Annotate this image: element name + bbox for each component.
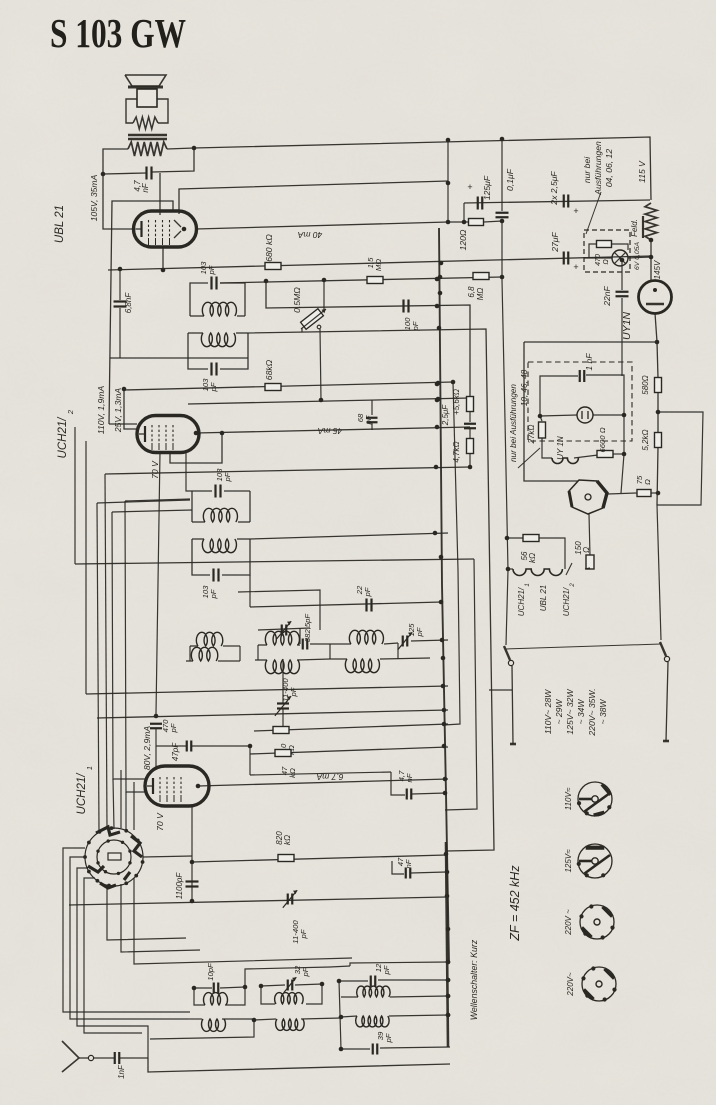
svg-text:nur bei: nur bei <box>582 156 592 183</box>
wire elco junction <box>469 429 471 438</box>
wire line y689 <box>86 686 448 694</box>
voice coil resistor zigzag <box>133 117 158 129</box>
svg-text:45 mA: 45 mA <box>317 426 342 436</box>
group1 coil a <box>194 988 205 1005</box>
wire node A down to 4.7nF <box>152 148 194 172</box>
trimmer 125pF osc <box>402 636 404 647</box>
svg-text:pF: pF <box>207 264 216 275</box>
svg-text:580Ω: 580Ω <box>641 375 650 394</box>
svg-text:110V, 1,9mA: 110V, 1,9mA <box>96 386 106 435</box>
resistor 10k <box>273 727 289 734</box>
svg-text:pF: pF <box>364 414 373 425</box>
svg-text:1: 1 <box>85 766 94 770</box>
resistor 580 Ohm <box>655 378 662 393</box>
socket 125V <box>578 844 612 878</box>
svg-text:220V~ 35W.: 220V~ 35W. <box>587 688 597 736</box>
svg-text:Ω: Ω <box>643 479 652 485</box>
IFT2 primary coil <box>192 521 205 523</box>
wire to 120 ohm <box>448 221 468 223</box>
socket 220V a <box>580 905 614 939</box>
svg-text:UY 1N: UY 1N <box>556 436 565 460</box>
wire primary left to UBL21 anode <box>103 149 133 229</box>
svg-text:UY1N: UY1N <box>621 312 633 340</box>
wire line 10k <box>254 724 448 731</box>
svg-text:125V≈: 125V≈ <box>564 849 573 873</box>
tube UCH21/2 <box>137 416 199 453</box>
indicator lamp circle <box>577 407 593 423</box>
solid box top <box>524 341 657 343</box>
UY heater bumps <box>552 458 578 464</box>
osc coil row1 a <box>190 645 198 647</box>
antenna <box>62 1041 79 1072</box>
socket 220V b <box>582 967 616 1001</box>
wire 470pF down <box>155 729 157 768</box>
svg-text:115 V: 115 V <box>637 160 647 183</box>
variable capacitor osc <box>277 702 289 704</box>
wire 125uF left down <box>463 203 465 222</box>
tube UBL21 <box>134 211 197 247</box>
svg-text:2x 2,5μF: 2x 2,5μF <box>549 171 559 206</box>
dashed box eye <box>528 362 632 441</box>
wire bus 580 <box>657 342 658 378</box>
resistor 6600 Ohm <box>597 451 613 458</box>
junction UBL21 diode <box>182 227 187 232</box>
capacitor 382.5pF <box>302 639 304 650</box>
group3 12pF wire <box>339 980 368 982</box>
pot left end to line F <box>301 328 303 332</box>
capacitor 68pF <box>371 400 373 415</box>
heater chain wire <box>508 568 513 570</box>
wire line 68k <box>124 382 453 390</box>
socket 110V <box>578 782 612 816</box>
IFT1 primary coil <box>190 315 204 317</box>
IFT2 secondary box <box>192 539 210 575</box>
svg-text:+: + <box>573 206 578 216</box>
resistor 680k <box>265 263 281 270</box>
loudspeaker LS <box>125 75 166 86</box>
switch lever left <box>508 660 513 665</box>
svg-text:Ausführungen: Ausführungen <box>593 141 603 196</box>
wire lamp row <box>584 257 612 259</box>
svg-text:UCH21/: UCH21/ <box>517 587 526 616</box>
wire down to switch <box>657 505 661 640</box>
svg-text:70 V: 70 V <box>150 460 160 479</box>
resistor 5.2k <box>655 433 662 448</box>
svg-text:1100pF: 1100pF <box>175 872 184 900</box>
svg-text:25V, 1,3mA: 25V, 1,3mA <box>113 388 123 434</box>
bus junction dots <box>439 261 444 266</box>
switch left box wires <box>63 848 190 1012</box>
svg-text:04, 06, 12: 04, 06, 12 <box>604 149 614 187</box>
wire 2x2.5uF <box>563 195 565 208</box>
wire trimmer line y901 <box>69 897 446 905</box>
wire 47pF junction down <box>248 744 253 749</box>
wire line I from IFT2 <box>250 533 448 539</box>
svg-text:kΩ: kΩ <box>283 835 292 845</box>
svg-text:UCH21/: UCH21/ <box>76 772 88 815</box>
svg-text:0,1μF: 0,1μF <box>505 168 515 191</box>
capacitor 4.7nF tone <box>145 167 147 180</box>
svg-text:6,8: 6,8 <box>467 286 476 298</box>
svg-text:Wellenschalter: Kurz: Wellenschalter: Kurz <box>469 939 479 1020</box>
svg-text:~ 29W: ~ 29W <box>554 699 564 725</box>
svg-text:40 mA: 40 mA <box>297 230 322 240</box>
svg-text:pF: pF <box>384 1032 393 1043</box>
diode section of UBL21 <box>174 220 181 227</box>
resistor 150 Ohm <box>586 555 594 569</box>
group1 wire up <box>245 967 330 987</box>
resistor 56k <box>523 535 539 542</box>
svg-text:47pF: 47pF <box>171 742 180 761</box>
resistor 5.6k <box>467 397 474 412</box>
svg-text:680 kΩ: 680 kΩ <box>264 234 274 262</box>
capacitor 22nF <box>616 291 629 293</box>
wire line B corner <box>179 181 448 214</box>
svg-text:220V ~: 220V ~ <box>564 909 573 936</box>
antenna wire to coils <box>120 1057 148 1059</box>
capacitor 10pF <box>213 983 215 994</box>
capacitor 47pF <box>156 745 186 747</box>
osc coil row2 b <box>255 659 267 661</box>
wire grid cap to tube <box>159 173 161 215</box>
osc trimmer top <box>281 625 283 636</box>
svg-text:UBL 21: UBL 21 <box>539 585 548 612</box>
capacitor 103pF ift1 bottom <box>210 363 212 376</box>
dial lamp dashed box <box>584 230 630 272</box>
junction cap470 tap <box>154 714 159 719</box>
trimmer 32pF <box>287 980 289 991</box>
svg-text:470: 470 <box>595 254 602 266</box>
resistor 4.7k <box>467 439 474 454</box>
wire UCH21/1 lead2 <box>125 501 146 792</box>
svg-text:+: + <box>573 262 578 272</box>
svg-text:UBL 21: UBL 21 <box>54 205 66 243</box>
wire line F from IFT1 secondary <box>248 329 494 851</box>
group2 coil b <box>254 1019 276 1020</box>
capacitor 12pF <box>370 976 372 987</box>
svg-text:UCH21/: UCH21/ <box>57 416 69 459</box>
svg-text:6600 Ω: 6600 Ω <box>598 427 607 452</box>
indicator lamp row <box>540 415 577 416</box>
osc coil row2 a <box>186 660 193 662</box>
svg-text:pF: pF <box>169 722 178 733</box>
heater chain bumps <box>513 569 562 576</box>
screen box under UCH21/2 <box>170 433 222 463</box>
svg-text:382,5pF: 382,5pF <box>303 613 312 643</box>
svg-text:pF: pF <box>209 381 218 392</box>
group2 box <box>261 986 275 1004</box>
svg-text:Ω: Ω <box>582 547 591 553</box>
svg-text:nur bei Ausführungen: nur bei Ausführungen <box>509 384 518 462</box>
capacitor 100pF <box>402 300 404 313</box>
capacitor 470pF <box>150 723 162 725</box>
switch wire left down <box>512 666 513 744</box>
osc coil group3 top <box>350 962 448 966</box>
resistor 6.8M <box>473 273 489 280</box>
svg-text:pF: pF <box>299 928 308 939</box>
resistor 27k <box>540 416 542 421</box>
svg-text:+: + <box>467 182 472 192</box>
group1 coil b <box>188 1018 202 1020</box>
wire k down to osc coil section <box>156 452 160 714</box>
trimmer 11-400pF <box>287 894 289 905</box>
IFT2 secondary coil <box>192 538 204 540</box>
resistor 47k osc <box>275 750 291 757</box>
elco 125uF <box>477 197 479 210</box>
wire rectifier down <box>655 313 657 342</box>
svg-text:kΩ: kΩ <box>288 768 297 778</box>
group3 coil a <box>341 996 358 998</box>
magic eye cathode down <box>589 514 590 556</box>
svg-text:68kΩ: 68kΩ <box>264 359 274 380</box>
output transformer primary winding <box>128 142 167 156</box>
bottom long wire <box>148 1058 450 1072</box>
v3 switch tap <box>489 689 512 691</box>
svg-text:5,2kΩ: 5,2kΩ <box>641 429 650 450</box>
resistor 120 ohm <box>469 219 484 226</box>
svg-text:145V: 145V <box>653 260 662 279</box>
svg-text:22nF: 22nF <box>602 285 612 306</box>
potentiometer 0.5M <box>323 280 325 311</box>
capacitor 1100pF <box>186 880 199 882</box>
resistor 68k <box>265 384 281 391</box>
ant coil group2 top <box>261 985 285 986</box>
svg-text:pF: pF <box>223 471 232 482</box>
svg-text:6V 0,05A: 6V 0,05A <box>634 242 641 270</box>
wire line D <box>220 277 502 283</box>
wire primary right to node A <box>167 148 194 149</box>
resistor 1.5M <box>367 277 383 284</box>
wire field to rectifier <box>650 240 652 281</box>
svg-text:nF: nF <box>405 772 414 782</box>
svg-text:2,5μF: 2,5μF <box>441 404 450 427</box>
capacitor 47nF <box>405 868 407 879</box>
group3 coil b <box>341 1016 357 1017</box>
wire UCH21/1 grid leads <box>112 512 146 779</box>
IFT1 secondary coil <box>188 332 203 334</box>
svg-text:110V≈: 110V≈ <box>564 787 573 810</box>
wire line 22pF <box>249 575 251 607</box>
wire UBL21 plate line P <box>196 222 448 229</box>
grid box UBL21 <box>109 201 173 424</box>
svg-text:nF: nF <box>404 858 413 868</box>
svg-text:pF: pF <box>301 966 310 977</box>
capacitor 1nF <box>579 370 581 382</box>
capacitor 27uF <box>563 252 565 265</box>
osc coil boxes <box>189 646 191 661</box>
wire 820k line <box>192 855 446 862</box>
capacitor 22pF <box>365 599 367 612</box>
rectifier tube UY1N <box>639 281 672 314</box>
capacitor 103pF ift1 <box>210 277 212 290</box>
svg-text:kΩ: kΩ <box>528 553 537 563</box>
wire 22nF branch <box>621 260 623 290</box>
wire line A to 115V corner <box>194 137 651 200</box>
4.7nF loop <box>391 780 405 795</box>
svg-text:10pF: 10pF <box>206 962 215 981</box>
svg-text:0,5MΩ: 0,5MΩ <box>292 287 302 313</box>
junction <box>101 172 106 177</box>
long vertical 0.1uF to heater chain <box>502 219 508 645</box>
svg-text:pF: pF <box>382 964 391 975</box>
leader line eye box <box>518 448 540 468</box>
group1 coil b drop <box>150 1020 254 1039</box>
wire 6.7mA line <box>198 779 448 786</box>
dial lamp <box>612 250 628 266</box>
group3 left verticals <box>339 981 341 1049</box>
osc coil row1 c <box>310 643 351 645</box>
svg-text:Ω: Ω <box>603 259 610 265</box>
svg-text:80V, 2,9mA: 80V, 2,9mA <box>142 726 152 771</box>
svg-text:1nF: 1nF <box>117 1064 126 1079</box>
svg-text:27μF: 27μF <box>550 231 560 252</box>
staircase x97 vertical <box>97 503 99 831</box>
wire osc plate line <box>250 772 391 775</box>
heater arrow <box>566 563 572 575</box>
wire line H 45mA <box>196 427 470 433</box>
vertical x448 from line A <box>447 140 449 222</box>
wire 4.7k bottom <box>469 454 471 467</box>
wire line 47k <box>250 747 448 754</box>
switch contact dots <box>141 860 145 864</box>
switch lower wires <box>107 886 186 940</box>
wire line C <box>108 256 651 270</box>
wire heater to 6600 <box>574 455 598 458</box>
capacitor 39pF <box>372 1044 374 1055</box>
svg-text:MΩ: MΩ <box>374 259 383 271</box>
main bus vertical <box>439 228 449 963</box>
wire 56k row <box>507 537 524 539</box>
svg-text:pF: pF <box>289 686 298 697</box>
staircase x86 vertical <box>85 441 87 694</box>
capacitor 0.1uF <box>496 212 509 214</box>
IF transformer 1 box top <box>190 283 208 316</box>
svg-text:2: 2 <box>570 583 576 588</box>
svg-text:~ 34W: ~ 34W <box>576 699 586 725</box>
long vertical v2 from y562 line <box>445 559 477 810</box>
long vertical x453 from 68k line <box>444 382 460 725</box>
resistor 470 Ohm lamp <box>589 244 596 258</box>
elco 2.5uF <box>469 412 471 422</box>
inner box 1nF <box>540 376 578 416</box>
speaker hum-bucking coil box <box>126 99 137 123</box>
svg-text:10, 46, 48: 10, 46, 48 <box>520 369 529 406</box>
capacitor 6.8nF <box>119 269 121 300</box>
svg-text:27kΩ: 27kΩ <box>527 425 536 445</box>
svg-text:70 V: 70 V <box>155 812 165 831</box>
wire line y590 stub <box>238 590 320 630</box>
resistor 820k <box>278 855 294 862</box>
svg-text:125μF: 125μF <box>482 175 492 200</box>
wire g3 down to IFT2 <box>186 452 192 491</box>
capacitor 4.7nF osc <box>406 789 408 800</box>
staircase corner x105 <box>105 474 107 829</box>
svg-text:220V~: 220V~ <box>566 972 575 997</box>
pot wiper wire <box>317 325 321 329</box>
svg-text:Feld.: Feld. <box>630 219 639 237</box>
svg-text:2: 2 <box>66 409 75 415</box>
capacitor 1nF antenna <box>94 1057 114 1059</box>
ant coil group1 top <box>194 987 212 989</box>
svg-text:MΩ: MΩ <box>476 288 485 301</box>
capacitor 103pF ift2 top <box>214 485 216 498</box>
IFT2 box top <box>191 491 193 522</box>
svg-text:6,8nF: 6,8nF <box>124 292 133 314</box>
wire tube cathode down <box>162 246 164 270</box>
svg-text:~ 38W: ~ 38W <box>598 699 608 725</box>
wire 125uF line <box>464 200 650 203</box>
IFT1 secondary box <box>188 333 208 369</box>
svg-text:120Ω: 120Ω <box>458 229 468 250</box>
wire line y562 long <box>75 559 474 564</box>
switch lever right <box>664 656 669 661</box>
leader line lamp box <box>586 192 601 234</box>
svg-text:pF: pF <box>209 588 218 599</box>
field zigzag <box>645 203 657 240</box>
capacitor 103pF ift2 bottom <box>212 569 214 582</box>
wire 4.7nF to anode wire <box>103 173 146 174</box>
wire line y471 <box>105 467 470 474</box>
junction node A <box>192 146 197 151</box>
switch link rod <box>506 644 661 649</box>
osc coil row2 c <box>330 658 347 660</box>
right loop <box>657 412 703 505</box>
resistor 75 Ohm <box>608 493 637 494</box>
group3 39pF wire <box>341 1048 370 1050</box>
wire 1100pF vertical <box>191 806 193 901</box>
vertical 0.1uF line <box>501 139 503 211</box>
tube UCH21/1 <box>145 766 209 806</box>
group2 coil a <box>275 993 304 1004</box>
wave switch bus thick <box>446 842 448 1047</box>
solid box left <box>524 342 578 481</box>
switch contact bars <box>96 827 120 835</box>
capacitor 47nF loop <box>392 861 404 874</box>
svg-text:1: 1 <box>525 583 531 586</box>
wire line G <box>188 398 470 404</box>
switch right wire to 1100pF <box>143 856 192 857</box>
svg-text:nF: nF <box>141 182 150 192</box>
group2 top wire right <box>330 966 350 967</box>
svg-text:UCH21/: UCH21/ <box>562 587 571 616</box>
switch feed wires top <box>120 770 122 828</box>
magic eye tube <box>569 480 607 514</box>
switch wire right down <box>666 662 668 741</box>
junction line D <box>264 279 269 284</box>
staircase x75 vertical <box>74 427 76 564</box>
svg-text:S 103 GW: S 103 GW <box>50 10 186 56</box>
svg-text:pF: pF <box>363 586 372 597</box>
svg-text:125V~ 32W: 125V~ 32W <box>565 689 575 735</box>
wire line E grid2 <box>266 281 470 396</box>
wire line y714 <box>97 710 448 718</box>
svg-text:1 nF: 1 nF <box>584 353 594 371</box>
junction UCH21/2 plate <box>194 431 199 436</box>
wire grid return lower <box>124 389 137 429</box>
junction UCH21/1 plate <box>196 784 201 789</box>
svg-text:105V, 35mA: 105V, 35mA <box>89 174 99 221</box>
wire grid return upper <box>110 357 248 359</box>
wire 6600 right down <box>623 415 625 454</box>
wave switch rotor <box>85 828 143 886</box>
svg-text:110V~ 28W: 110V~ 28W <box>543 689 553 734</box>
osc coil row1 b <box>258 644 267 646</box>
output transformer core <box>128 134 167 137</box>
svg-text:ZF = 452 kHz: ZF = 452 kHz <box>508 865 522 942</box>
svg-text:4,7kΩ: 4,7kΩ <box>452 441 461 462</box>
svg-text:pF: pF <box>415 626 424 637</box>
